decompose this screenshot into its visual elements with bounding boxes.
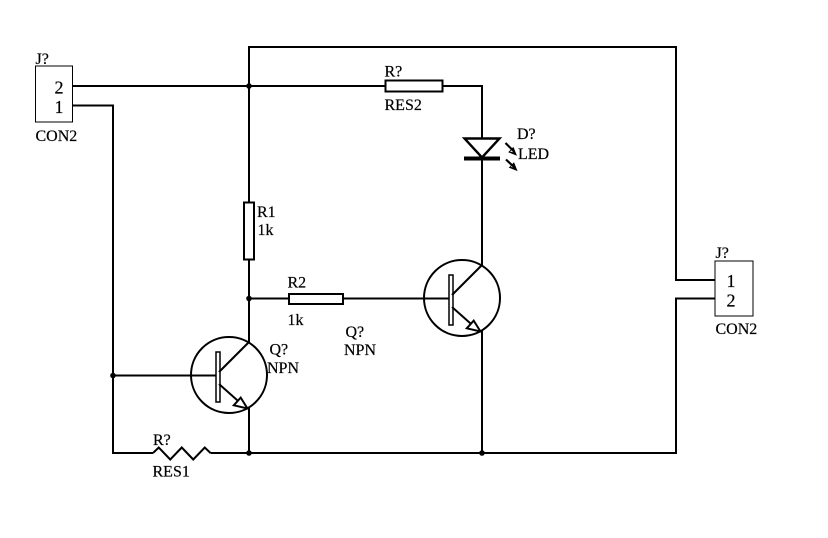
wire Q1 emitter vertical: [248, 408, 250, 455]
junction dot Q1 emitter / bottom bus: [246, 450, 252, 456]
wire top bus: [248, 46, 677, 48]
svg-text:R2: R2: [288, 275, 307, 292]
svg-text:2: 2: [727, 291, 736, 311]
transistor Q2 collector diagonal: [452, 265, 482, 295]
wire left bus to resistor RES2: [248, 85, 386, 87]
transistor Q1 emitter diagonal: [219, 384, 246, 408]
wire J1 pin 2 to left bus: [73, 85, 251, 87]
svg-text:1k: 1k: [288, 312, 304, 329]
wire left bus upper vertical: [248, 46, 250, 203]
junction dot base tap on left outer vertical: [110, 373, 116, 379]
svg-text:Q?: Q?: [346, 324, 365, 341]
wire J1 pin 1 horizontal: [73, 105, 115, 107]
svg-text:NPN: NPN: [267, 360, 299, 377]
LED D? triangle: [465, 139, 500, 158]
transistor Q1 emitter arrowhead: [234, 398, 248, 409]
junction dot Q2 emitter / bottom bus: [479, 450, 485, 456]
svg-text:CON2: CON2: [716, 321, 758, 338]
svg-text:1: 1: [727, 271, 736, 291]
svg-text:J?: J?: [36, 51, 49, 68]
LED light arrow 2 shaft: [506, 160, 515, 168]
wire J2 pin 1 horizontal: [675, 279, 715, 281]
svg-text:2: 2: [55, 78, 64, 98]
svg-text:1k: 1k: [258, 222, 274, 239]
wire bottom bus right segment: [211, 452, 678, 454]
junction dot R1 / R2 node: [246, 296, 252, 302]
transistor Q2 circle: [424, 260, 500, 336]
wire RES2 to LED corner: [443, 85, 484, 87]
wire R2 to Q2 base: [343, 298, 449, 300]
wire Q1 base: [113, 375, 216, 377]
svg-text:NPN: NPN: [344, 342, 376, 359]
transistor Q1 collector diagonal: [219, 342, 249, 372]
wire LED anode vertical: [481, 85, 483, 139]
svg-text:RES1: RES1: [153, 464, 190, 481]
svg-text:R?: R?: [385, 64, 403, 81]
LED light arrow 1 shaft: [506, 143, 515, 152]
svg-text:J?: J?: [716, 245, 729, 262]
LED D? cathode bar: [464, 157, 500, 161]
resistor R2 body: [289, 294, 343, 304]
svg-text:R1: R1: [257, 204, 276, 221]
svg-text:LED: LED: [518, 146, 549, 163]
transistor Q2 emitter arrowhead: [467, 321, 481, 332]
transistor Q1 circle: [191, 337, 267, 413]
connector J2 body: [715, 261, 753, 316]
connector J1 body: [36, 66, 73, 122]
LED light arrow 2 head: [509, 162, 518, 171]
wire Q2 collector vertical (to LED): [481, 158, 483, 266]
wire right bus lower (J2 pin 2 to bottom): [675, 298, 677, 455]
wire left outer vertical: [112, 105, 114, 455]
transistor Q2 base bar: [449, 275, 453, 325]
wire right bus upper (to J2 pin 1): [675, 46, 677, 281]
svg-text:Q?: Q?: [270, 342, 289, 359]
wire node to R2: [249, 298, 290, 300]
wire J2 pin 2 horizontal: [675, 298, 715, 300]
transistor Q1 base bar: [216, 352, 220, 402]
svg-text:RES2: RES2: [385, 97, 422, 114]
resistor R? RES2 body: [386, 81, 443, 92]
svg-text:CON2: CON2: [36, 128, 78, 145]
wire bottom bus left segment: [112, 452, 153, 454]
svg-text:D?: D?: [517, 126, 536, 143]
wire left bus middle vertical (R1 to Q1 collector): [248, 260, 250, 343]
transistor Q2 emitter diagonal: [452, 307, 479, 331]
resistor R1 body: [244, 203, 254, 260]
svg-text:1: 1: [55, 97, 64, 117]
resistor R? RES1 zigzag: [153, 448, 211, 460]
svg-text:R?: R?: [153, 432, 171, 449]
wire Q2 emitter vertical: [481, 330, 483, 454]
LED light arrow 1 head: [508, 147, 517, 156]
junction dot J1 pin2 wire / left bus: [246, 83, 252, 89]
